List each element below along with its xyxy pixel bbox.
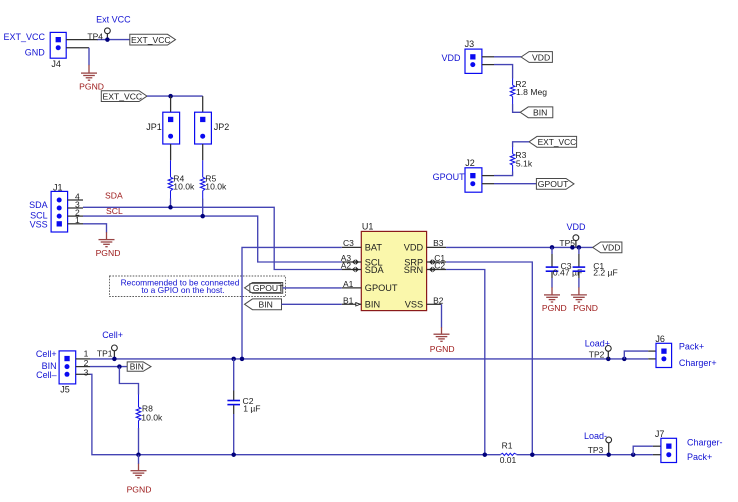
svg-text:GND: GND (25, 47, 46, 57)
svg-text:B1: B1 (343, 295, 354, 305)
svg-text:EXT_VCC: EXT_VCC (4, 32, 46, 42)
resistor R3 (510, 147, 515, 172)
J7 pin1 stub (653, 445, 661, 447)
wire J3 pin2 to R2 (494, 65, 513, 79)
resistor R8 (136, 395, 141, 429)
net flag BIN (J5) (127, 362, 151, 372)
svg-text:TP2: TP2 (589, 349, 605, 359)
U1 pin VDD stub (B3) (427, 246, 447, 248)
ground PGND (C3) (542, 287, 567, 313)
svg-text:Charger+: Charger+ (679, 358, 717, 368)
U1 pin SCL stub (A3) (342, 261, 362, 263)
svg-text:TP3: TP3 (588, 445, 604, 455)
IC U1 (361, 231, 426, 310)
wire J4 GND down (88, 48, 90, 65)
svg-text:JP1: JP1 (146, 122, 162, 132)
svg-text:J5: J5 (60, 384, 70, 394)
junction SRN/ground rail (483, 452, 488, 457)
wire J3 pin1 to VDD flag (494, 56, 521, 58)
pin arrows SCL (353, 260, 359, 264)
junction C2 top (231, 357, 236, 362)
junction JP1 top (168, 94, 173, 99)
svg-text:to a GPIO on the host.: to a GPIO on the host. (141, 285, 224, 295)
ground PGND (U1 VSS) (430, 327, 455, 354)
svg-text:J4: J4 (51, 59, 61, 69)
wire R3 to J2 pin1 (494, 172, 513, 176)
ground PGND (C1) (571, 287, 598, 313)
resistor R5 (200, 160, 205, 198)
svg-text:VDD: VDD (602, 243, 620, 253)
junction TP1 (112, 357, 117, 362)
wire R2 to BIN flag (513, 104, 521, 112)
svg-text:2.2 µF: 2.2 µF (593, 268, 618, 278)
junction J6 branch (622, 357, 627, 362)
svg-text:Cell+: Cell+ (36, 349, 57, 359)
ground PGND (J1) (96, 232, 121, 258)
U1 pin GPOUT stub (A1) (342, 287, 362, 289)
svg-text:J6: J6 (655, 334, 665, 344)
ground PGND (R8) (127, 455, 152, 495)
J1 pin 2 stub (68, 215, 83, 217)
wire EXT_VCC flag to R3 (513, 142, 529, 147)
wire SRP net (446, 262, 532, 455)
test point TP1 (113, 351, 115, 359)
svg-text:5.1k: 5.1k (516, 158, 533, 168)
net flag VDD (J3) (521, 52, 552, 63)
junction SRP/ground rail (530, 452, 535, 457)
resistor R1 (sense) (501, 453, 517, 455)
svg-text:TP1: TP1 (97, 348, 113, 358)
svg-text:3: 3 (84, 367, 89, 377)
svg-text:BAT: BAT (365, 243, 383, 253)
J2 pin2 stub (482, 183, 494, 185)
wire EXT_VCC flag to JP2 (147, 95, 203, 97)
test point TP2 (607, 351, 609, 359)
J4 pin 2 stub (66, 47, 89, 49)
junction J7 branch (631, 452, 636, 457)
svg-text:Cell–: Cell– (36, 370, 57, 380)
pin arrows SRP (430, 260, 436, 264)
net flag GPOUT (J2) (536, 179, 574, 190)
svg-text:Ext VCC: Ext VCC (96, 15, 131, 25)
net flag VDD (rail) (593, 242, 622, 253)
svg-text:GPOUT: GPOUT (433, 172, 466, 182)
junction C3/VDD (550, 245, 555, 250)
U1 pin SDA stub (A2) (342, 269, 362, 271)
svg-text:VDD: VDD (442, 53, 462, 63)
svg-text:Pack+: Pack+ (687, 452, 712, 462)
ground PGND (J4) (79, 65, 104, 92)
J5 pin1 stub (76, 358, 90, 360)
net flag EXT_VCC (R3) (529, 136, 577, 147)
svg-text:GPOUT: GPOUT (365, 283, 398, 293)
svg-text:Pack+: Pack+ (679, 342, 704, 352)
svg-text:Charger-: Charger- (687, 438, 723, 448)
svg-text:SDA: SDA (365, 265, 385, 275)
svg-text:VDD: VDD (404, 243, 424, 253)
svg-text:R1: R1 (502, 440, 513, 450)
junction R8/ground rail (136, 452, 141, 457)
pin arrows SRN (430, 268, 436, 272)
wire SRN net (446, 270, 485, 455)
connector J3 (465, 49, 482, 73)
svg-text:BIN: BIN (533, 108, 547, 118)
capacitor C1 (573, 247, 586, 287)
svg-text:A2: A2 (341, 261, 352, 271)
J1 pin 1 stub (68, 223, 83, 225)
junction C2 bottom (231, 452, 236, 457)
wire Cell- (J5 pin3) (90, 374, 501, 454)
U1 pin SRN stub (C2) (427, 269, 447, 271)
svg-text:BIN: BIN (365, 300, 380, 310)
wire R5 to SCL rail (202, 199, 204, 217)
svg-text:EXT_VCC: EXT_VCC (103, 91, 143, 101)
JP1 pin1 stub (170, 96, 172, 112)
J4 pin 1 stub (66, 39, 98, 41)
svg-text:C2: C2 (434, 261, 445, 271)
wire J1 VSS to ground (83, 224, 107, 233)
wire Cell+ rail (90, 358, 648, 360)
svg-text:C3: C3 (343, 238, 354, 248)
svg-text:U1: U1 (362, 222, 374, 232)
svg-text:1 µF: 1 µF (243, 404, 260, 414)
JP2 pin1 stub (202, 96, 204, 112)
svg-text:Load-: Load- (584, 431, 607, 441)
svg-text:GPOUT: GPOUT (538, 179, 569, 189)
svg-text:J3: J3 (465, 39, 475, 49)
svg-text:J2: J2 (465, 158, 475, 168)
svg-text:J7: J7 (655, 429, 665, 439)
svg-text:PGND: PGND (96, 248, 121, 258)
wire BIN junction to R8 (119, 367, 138, 395)
junction TP2 (606, 357, 611, 362)
svg-text:A1: A1 (343, 279, 354, 289)
svg-text:BIN: BIN (130, 362, 144, 372)
svg-text:PGND: PGND (430, 344, 455, 354)
JP1 pin2 stub (170, 144, 172, 160)
connector J1 (51, 191, 68, 232)
svg-text:10.0k: 10.0k (141, 412, 163, 422)
test point TP4 (106, 34, 108, 40)
wire R8 to ground rail (138, 428, 140, 455)
wire BAT net (U1 BAT to Cell+ rail) (242, 247, 342, 359)
J3 pin2 stub (482, 64, 494, 66)
svg-text:EXT_VCC: EXT_VCC (131, 35, 171, 45)
wire EXT_VCC J4 to flag (98, 39, 130, 41)
svg-text:PGND: PGND (79, 81, 104, 91)
resistor R2 (510, 79, 515, 105)
svg-text:PGND: PGND (542, 303, 567, 313)
connector J4 (50, 32, 66, 58)
svg-text:VSS: VSS (30, 220, 48, 230)
net flag BIN (R2) (520, 107, 553, 118)
wire VDD rail (U1 VDD to flag) (446, 246, 593, 248)
JP2 pin2 stub (202, 144, 204, 160)
svg-text:1.8 Meg: 1.8 Meg (516, 87, 547, 97)
pin arrows SDA (353, 268, 359, 272)
junction R5/SCL (200, 214, 205, 219)
svg-text:1: 1 (75, 215, 80, 225)
junction R4/SDA (168, 205, 173, 210)
connector J6 (656, 343, 672, 367)
U1 pin VSS stub (B2) (427, 303, 442, 305)
junction C1/VDD (577, 245, 582, 250)
J7 pin2 stub (653, 454, 661, 456)
J5 pin2 stub (76, 366, 90, 368)
wire VSS to ground (441, 304, 443, 327)
svg-text:0.47 µF: 0.47 µF (553, 268, 582, 278)
capacitor C2 (227, 359, 240, 455)
capacitor C3 (546, 247, 559, 287)
svg-text:B2: B2 (433, 295, 444, 305)
junction BAT/Cell+ (240, 357, 245, 362)
svg-text:VSS: VSS (405, 300, 423, 310)
svg-text:SDA: SDA (29, 200, 48, 210)
wire BIN flag to U1 (282, 303, 342, 305)
resistor R4 (168, 160, 173, 198)
svg-text:Cell+: Cell+ (102, 330, 123, 340)
test point TP5 (575, 241, 577, 248)
J3 pin1 stub (482, 56, 494, 58)
J2 pin1 stub (482, 175, 494, 177)
U1 pin BIN stub (B1) (342, 303, 362, 305)
svg-text:TP5: TP5 (559, 238, 575, 248)
connector J2 (465, 168, 482, 192)
svg-text:EXT_VCC: EXT_VCC (538, 137, 577, 147)
junction BIN (117, 364, 122, 369)
junction TP3 (606, 452, 611, 457)
svg-text:PGND: PGND (573, 303, 598, 313)
jumper JP2 (195, 112, 212, 144)
wire SDA rail (83, 207, 342, 269)
dashed note box (110, 276, 286, 297)
test point TP3 (608, 443, 610, 455)
wire R4 to SDA rail (170, 199, 172, 208)
svg-text:J1: J1 (53, 183, 63, 193)
connector J5 (59, 351, 76, 384)
svg-text:SDA: SDA (105, 191, 123, 201)
svg-text:GPOUT: GPOUT (253, 283, 284, 293)
svg-text:VDD: VDD (566, 222, 586, 232)
wire J6 pin1 branch (624, 351, 648, 359)
wire SCL rail (83, 216, 342, 262)
svg-text:VDD: VDD (532, 52, 550, 62)
J1 pin 4 stub (68, 199, 83, 201)
wire ground rail right of R1 (517, 454, 653, 456)
J6 pin2 stub (648, 358, 656, 360)
svg-text:SRN: SRN (404, 265, 423, 275)
wire J2 pin2 to GPOUT flag (494, 183, 536, 185)
junction TP5 (570, 245, 575, 250)
svg-text:1: 1 (84, 349, 89, 359)
svg-text:10.0k: 10.0k (205, 182, 227, 192)
svg-text:Load+: Load+ (585, 339, 610, 349)
svg-text:JP2: JP2 (214, 122, 230, 132)
J5 pin3 stub (76, 373, 90, 375)
svg-text:0.01: 0.01 (500, 455, 517, 465)
svg-text:SCL: SCL (106, 206, 123, 216)
svg-text:PGND: PGND (127, 484, 152, 494)
svg-text:TP4: TP4 (87, 31, 103, 41)
jumper JP1 (163, 112, 180, 144)
connector J7 (661, 438, 677, 462)
pin arrow BIN (input) (356, 303, 360, 306)
svg-text:B3: B3 (433, 238, 444, 248)
svg-text:BIN: BIN (259, 300, 273, 310)
junction TP4 (105, 37, 110, 42)
net flag GPOUT (U1) (245, 283, 285, 294)
J6 pin1 stub (648, 350, 656, 352)
wire J7 pin1 branch (633, 446, 653, 455)
U1 pin SRP stub (C1) (427, 261, 447, 263)
svg-text:10.0k: 10.0k (173, 182, 195, 192)
net flag EXT_VCC (top) (130, 34, 176, 45)
wire BIN (J5 pin2) (90, 366, 127, 368)
wire GPOUT flag to U1 (283, 287, 342, 289)
U1 pin BAT stub (C3) (342, 246, 362, 248)
net flag EXT_VCC (to jumpers) (101, 91, 147, 102)
net flag BIN (U1) (245, 299, 282, 310)
J1 pin 3 stub (68, 207, 83, 209)
